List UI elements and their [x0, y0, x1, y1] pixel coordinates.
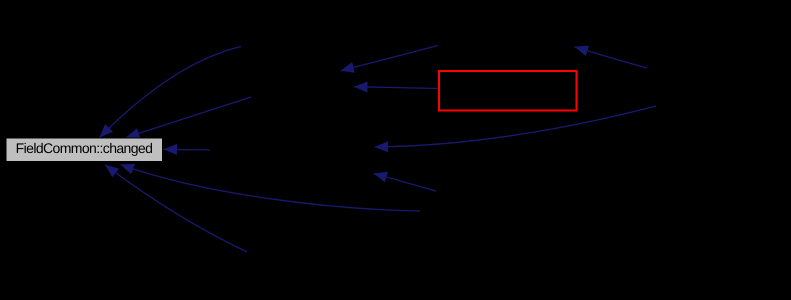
edge E10: far-right lower node to middle row node: [375, 106, 657, 147]
edge E11: lower-right node to lower middle node: [374, 173, 437, 191]
edge E1: top-middle node to FieldCommon::changed (top): [100, 47, 242, 138]
svg-text:FieldCommon::changed: FieldCommon::changed: [16, 140, 153, 156]
node truncated (red outline): [439, 71, 577, 111]
edge E8: red node to middle node 2: [354, 87, 438, 89]
edge E4: bottom-middle node to FieldCommon::changed (bottom): [105, 165, 247, 252]
edge E3: middle row node to FieldCommon::changed (right side): [164, 148, 211, 151]
edge E7: node above red box to middle node 1: [341, 46, 439, 71]
edge E2: middle node 2 to FieldCommon::changed (top): [126, 97, 251, 138]
edge E5: right lower node to FieldCommon::changed (bottom): [121, 165, 421, 212]
node FieldCommon::changed (current node, grey): [6, 138, 163, 162]
edge E9: far-right node to node above red box: [575, 47, 648, 68]
